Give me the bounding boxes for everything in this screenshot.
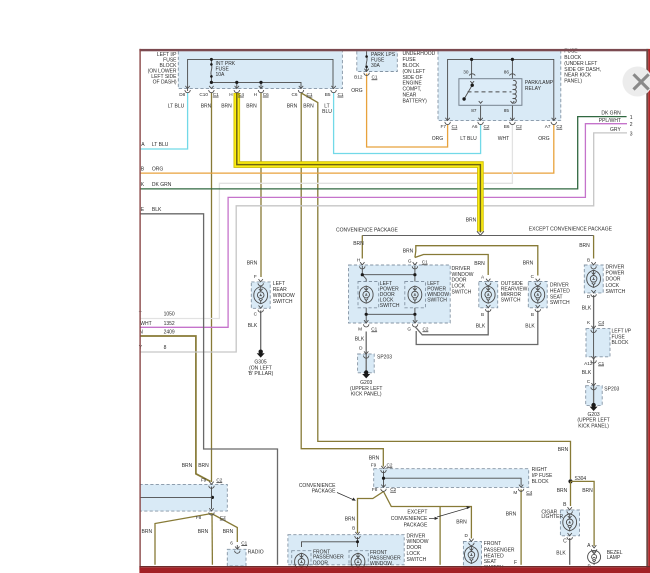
underhood relay block box [438,51,561,120]
radio feed wire into box [236,545,238,549]
svg-text:SWITCH: SWITCH [427,298,447,304]
svg-text:B: B [587,257,590,262]
svg-text:BRN: BRN [506,512,517,518]
svg-text:DK GRN: DK GRN [601,111,621,117]
front passenger heated seat switch box [463,541,515,571]
svg-text:SP203: SP203 [377,355,392,361]
svg-text:BLK: BLK [355,337,365,343]
svg-text:3: 3 [630,131,633,137]
driver heated seat switch box [528,282,570,308]
svg-text:BLK: BLK [582,306,592,312]
svg-text:30A: 30A [371,63,381,69]
svg-text:BLOCK: BLOCK [532,479,550,485]
connector K/C4 [587,320,605,332]
svg-text:1352: 1352 [164,321,175,327]
svg-text:RADIO: RADIO [248,550,264,556]
svg-text:BLK: BLK [556,551,566,557]
switch left rear window [248,274,268,329]
svg-text:H: H [357,258,360,263]
svg-text:PANEL): PANEL) [564,78,582,84]
svg-text:BRN: BRN [353,241,364,247]
svg-text:C1: C1 [213,92,219,97]
svg-text:F8: F8 [196,515,202,520]
svg-text:BLK: BLK [248,323,258,329]
svg-text:DRIVER: DRIVER [606,265,625,271]
svg-text:ORG: ORG [432,136,444,142]
svg-text:C2: C2 [387,463,393,468]
switch left power door lock [359,286,373,303]
wire BLK M/C1 to SP203 and ground G203 left [365,332,367,373]
wire GRY [139,127,633,352]
svg-text:G: G [408,258,412,263]
underhood fuse block label [403,51,436,104]
wire BRN S304 to bezel lamp A [571,481,595,549]
wire BLK driver power door lock D to K/C4 [593,295,595,329]
svg-text:C1: C1 [338,92,344,97]
front passenger door lock switch inner box [292,549,344,566]
svg-text:ORG: ORG [351,88,363,94]
svg-text:C6: C6 [263,92,269,97]
right I/P fuse block box [374,467,553,487]
svg-text:BLU: BLU [322,109,332,115]
left power window switch inner box [405,281,450,308]
svg-text:BRN: BRN [474,261,485,267]
connector A12/C1 [582,356,605,384]
svg-text:BLOCK: BLOCK [612,340,630,346]
svg-text:SWITCH: SWITCH [407,557,427,563]
connector F8/C2 right I/P block [372,485,397,493]
svg-text:C4: C4 [238,92,244,97]
svg-text:10A: 10A [216,72,226,78]
svg-text:86: 86 [504,69,510,74]
svg-text:WHT: WHT [140,321,151,327]
ground G203 (right) [577,403,610,430]
svg-text:C1: C1 [452,124,458,129]
relay outputs 87/85 [481,105,513,120]
svg-text:C10: C10 [199,92,208,97]
connector H at conv box top [357,258,365,269]
svg-text:BRN: BRN [221,103,232,109]
wire BRN F8/C2 three branches (lower-left) [142,514,238,565]
svg-text:SWITCH: SWITCH [380,303,400,309]
svg-text:BLK: BLK [525,323,535,329]
svg-text:POWER: POWER [606,271,625,277]
svg-text:'B' PILLAR): 'B' PILLAR) [248,371,274,377]
svg-text:EXCEPT: EXCEPT [407,510,427,516]
svg-text:C1: C1 [598,361,604,366]
svg-text:C2: C2 [484,124,490,129]
svg-text:2409: 2409 [164,330,175,336]
svg-text:30: 30 [463,69,469,74]
connectors M/C1 G/C2 at conv box bottom [355,320,429,351]
wire BRN G/C1 to mirror switch A [415,255,488,276]
svg-text:BRN: BRN [558,447,569,453]
svg-text:BRN: BRN [246,103,257,109]
switch front passenger door lock [295,553,309,570]
connector labels top fuse block [179,92,344,97]
svg-text:SWITCH: SWITCH [452,290,472,296]
splice S304 [568,476,586,483]
svg-text:1050: 1050 [164,312,175,318]
svg-text:H: H [229,92,232,97]
svg-text:SWITCH: SWITCH [273,299,293,305]
svg-text:B: B [352,526,355,531]
svg-text:BLK: BLK [476,323,486,329]
rear fuse block label [564,49,601,85]
wire BRN highlighted yellow from H/C4 [237,93,484,235]
svg-text:BLK: BLK [582,370,592,376]
svg-text:PASSENGER: PASSENGER [484,547,515,553]
svg-text:BRN: BRN [303,103,314,109]
driver window door lock switch box (convenience) [349,265,474,323]
svg-text:KICK PANEL): KICK PANEL) [578,423,609,429]
wire PPL/WHT [140,118,633,327]
svg-text:SWITCH: SWITCH [550,300,570,306]
svg-text:C1: C1 [371,327,377,332]
svg-text:BRN: BRN [579,243,590,249]
svg-text:WHT: WHT [498,136,509,142]
svg-text:KICK PANEL): KICK PANEL) [351,392,382,398]
svg-text:DK GRN: DK GRN [152,182,172,188]
svg-text:C2: C2 [516,124,522,129]
connector labels B12/C1 [354,75,378,80]
wire ORG row B to relay A7 [140,125,554,173]
fuse PARK LPS [365,51,368,71]
connector M/C4 right I/P block [513,485,532,495]
wire BRN F8/C2 to B pin (convenience, bottom) [345,492,384,534]
svg-text:G: G [407,327,411,332]
splice SP203 box (left) [358,354,393,373]
svg-text:8: 8 [164,345,167,351]
svg-text:BRN: BRN [345,516,356,522]
svg-text:C4: C4 [526,490,532,495]
wire BLK cigar lighter C to bottom [556,538,569,565]
wire BRN from C6/C1 down (branch 2, diagonal) [301,93,570,479]
outside rearview mirror switch box [479,281,528,308]
svg-text:LT BLU: LT BLU [168,103,185,109]
wire BRN M/C4 down to F [506,490,521,566]
svg-text:C1: C1 [307,92,313,97]
connectors at left I/P fuse block bottom [185,86,336,93]
connector F8/C2 lower-left [196,508,226,520]
switch left power window [408,286,422,303]
wire colour labels below fuse block [168,103,332,115]
svg-text:FRONT: FRONT [484,541,501,547]
switch front passenger window [351,553,365,570]
left rear window switch box [251,281,295,308]
wire LT BLU row A [140,93,188,149]
switch driver heated seat [525,274,544,329]
wire BRN bus to H connector [353,235,364,258]
splice SP203 entry (left) [364,351,369,358]
internal link D8 to B5 in fuse block [188,59,333,91]
lower left fuse block box [140,484,228,511]
annotation convenience package (bottom) [299,483,356,501]
svg-text:CONVENIENCE: CONVENIENCE [391,516,428,522]
svg-text:H: H [254,92,257,97]
svg-text:ORG: ORG [152,167,164,173]
svg-text:BRN: BRN [456,520,467,526]
svg-text:F: F [514,560,517,566]
svg-text:B5: B5 [325,92,331,97]
svg-text:B: B [481,312,484,317]
wire BLK row E [140,207,278,565]
svg-text:BRN: BRN [201,103,212,109]
svg-text:BRN: BRN [523,260,534,266]
wire BLK heated seat B to G/C2 [416,311,538,345]
cigar lighter box [541,509,579,536]
svg-text:BRN: BRN [198,463,209,469]
connector B bottom conv box [352,526,360,539]
svg-text:BRN: BRN [369,456,380,462]
svg-text:DOOR: DOOR [606,277,621,283]
radio box [227,549,263,566]
wire BLK left rear window switch to G305 [260,311,262,353]
svg-text:PACKAGE: PACKAGE [312,488,336,494]
svg-text:C2: C2 [423,327,429,332]
connector F9/C2 lower-left [182,463,223,488]
front passenger window switch inner box [349,550,401,567]
svg-text:SP203: SP203 [604,386,619,392]
fuse block internal bus [210,81,301,89]
svg-text:OF DASH): OF DASH) [153,80,177,86]
svg-text:C2: C2 [220,515,226,520]
wire bezel lamp B to bottom [587,563,594,570]
wire WHT from relay 85 to left edge [139,125,513,319]
svg-text:A6: A6 [472,124,478,129]
svg-text:6: 6 [230,541,233,546]
svg-text:C1: C1 [241,541,247,546]
wire BRN from C10/C1 down to lower-left block [211,93,213,482]
svg-text:BRN: BRN [403,249,414,255]
svg-text:BRN: BRN [142,529,153,535]
connectors at relay block bottom [445,118,557,125]
svg-text:C1: C1 [372,75,378,80]
diagram frame border [139,49,650,573]
svg-text:BRN: BRN [287,103,298,109]
svg-text:BATTERY): BATTERY) [403,98,428,104]
svg-text:DOOR: DOOR [313,560,328,566]
svg-text:ORG: ORG [538,136,550,142]
svg-text:LIGHTER: LIGHTER [541,514,563,520]
ground G203 (left) [350,370,383,397]
svg-text:C: C [563,539,567,545]
wire BRN from H/C6 to left rear window switch [247,93,261,277]
switch outside rearview mirror [476,274,495,329]
svg-text:EXCEPT CONVENIENCE PACKAGE: EXCEPT CONVENIENCE PACKAGE [529,227,613,233]
close button X [623,67,650,97]
svg-text:BRN: BRN [198,529,209,535]
wire BRN G/C1 to driver heated seat switch C [415,246,538,276]
svg-text:BRN: BRN [182,463,193,469]
left power door lock switch inner box [358,281,400,309]
annotation except convenience package (bottom) [391,506,471,528]
connector B12/C1 [364,69,369,76]
connector 6/C1 radio [230,541,247,554]
svg-text:C2: C2 [556,124,562,129]
relay PARK/LAMP [459,69,554,113]
svg-text:C1: C1 [422,260,428,265]
wire DK GRN row K [140,111,633,189]
switch front passenger heated seat [465,546,479,563]
relay feed link 30/86 [448,58,554,121]
svg-text:C4: C4 [598,320,604,325]
svg-text:C6: C6 [292,92,298,97]
svg-text:D8: D8 [179,92,185,97]
connector F9/C2 right I/P block [371,463,393,473]
svg-text:PPL/WHT: PPL/WHT [599,118,621,124]
svg-text:CONVENIENCE PACKAGE: CONVENIENCE PACKAGE [336,228,399,234]
fuse INT PRK [210,58,213,83]
svg-text:M: M [513,490,517,495]
svg-text:M: M [358,327,362,332]
svg-text:F8: F8 [372,487,378,492]
wire BRN bus to B connector (except convenience) [579,235,593,258]
ground G305 [248,350,274,378]
connector labels relay block bottom [441,124,563,129]
svg-text:C2: C2 [216,478,222,483]
wire BLK A12/C1 to SP203 and ground G203 right [593,357,595,405]
svg-text:A12: A12 [584,361,593,366]
wire LT BLU from B5/C1 to relay 87 [334,93,481,154]
svg-text:SWITCH: SWITCH [501,298,521,304]
splice SP203 entry (right) [591,383,596,390]
svg-text:B6: B6 [504,124,510,129]
svg-text:BRN: BRN [582,488,593,494]
left I/P fuse block small box (right column) [586,328,632,356]
wire BRN F8/C2 right branch (except convenience) [384,492,472,565]
bottom conv box internal [302,537,360,547]
park lps fuse box [357,51,398,71]
wire internal left I/P small block [593,329,595,358]
svg-text:LAMP: LAMP [607,555,621,561]
svg-text:C2: C2 [390,487,396,492]
wire BLK mirror B to G/C2 [415,311,488,335]
wire colour labels below relay block [432,136,550,142]
svg-text:SWITCH: SWITCH [606,289,626,295]
svg-text:LT BLU: LT BLU [152,142,169,148]
svg-text:B: B [531,312,534,317]
bezel lamp [588,545,623,563]
wire BRN 2409 from left edge [139,330,210,482]
svg-text:BRN: BRN [466,218,477,224]
svg-text:87: 87 [471,108,477,113]
cigar lighter element [563,507,577,540]
svg-text:F: F [254,274,257,279]
svg-text:LOCK: LOCK [606,283,620,289]
svg-text:2: 2 [630,122,633,128]
left I/P fuse block (top) [148,51,343,88]
conv box internal links [361,266,417,322]
svg-text:BRN: BRN [557,488,568,494]
svg-text:85: 85 [504,108,510,113]
svg-text:F7: F7 [441,124,447,129]
svg-text:B12: B12 [354,75,363,80]
right I/P block internal bus [382,471,521,487]
svg-text:LT BLU: LT BLU [460,136,477,142]
svg-text:F9: F9 [371,463,377,468]
svg-text:BRN: BRN [247,261,258,267]
svg-text:BRN: BRN [223,529,234,535]
connector G/C1 at conv box top [408,258,428,269]
svg-text:F9: F9 [201,478,207,483]
driver power door lock switch box (except convenience) [584,265,625,295]
svg-text:GRY: GRY [610,127,621,133]
svg-text:RELAY: RELAY [525,86,542,92]
svg-text:A7: A7 [545,124,551,129]
svg-text:BLK: BLK [152,207,162,213]
front passenger window/door lock switch box (bottom) [288,534,429,565]
splice SP203 box (right column) [586,386,620,406]
wire BRN S304 to cigar lighter B [557,481,571,508]
connector D front passenger heated seat [465,533,475,546]
wire ORG from B12/C1 to relay 30 [351,74,447,148]
svg-text:1: 1 [630,115,633,121]
fuse INT PRK label [216,61,236,78]
splice bus convenience/except [362,234,593,236]
switch driver power door lock (except conv) [582,257,601,311]
wire BRN from C6/C1 down (branch 1) [301,93,383,467]
lower-left block bus [140,487,214,510]
svg-text:PACKAGE: PACKAGE [404,522,428,528]
